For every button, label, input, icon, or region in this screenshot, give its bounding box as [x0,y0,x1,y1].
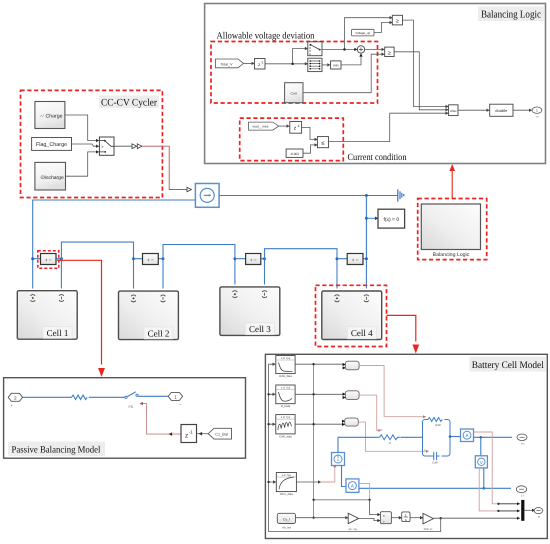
integrator block 1/s [402,512,410,522]
label Passive Balancing Model [8,442,105,457]
switch SW2 [125,392,138,409]
wire AND to double [458,109,487,111]
wire delay to branch node [265,49,306,64]
port oval 2 [8,393,22,408]
svg-text:OCV_data: OCV_data [280,492,294,496]
wire PS V1 to mux input2 [479,468,497,511]
svg-text:1-D T(u): 1-D T(u) [281,357,291,360]
wire sensor1 row stubs [33,258,62,260]
svg-text:Balancing Logic: Balancing Logic [433,252,470,258]
svg-text:CdR: CdR [432,461,438,465]
wire gain1 to divide in2 [359,519,378,521]
gain triangle Ah conversion [348,513,358,531]
node sensor2 right [162,257,165,260]
svg-text:CdR_data: CdR_data [279,434,292,438]
annotation red line panel to subsystem [451,170,453,199]
relational block GE2 [385,47,394,56]
wire PS OCV to Em control [321,467,335,482]
svg-text:Cell 4: Cell 4 [351,328,373,338]
dashed box CC-CV Cycler [21,90,163,197]
wire RC to current sensor A1 [450,436,461,438]
wire mux in1 stub [498,503,519,505]
controlled current source block [195,184,219,208]
svg-text:Cell 2: Cell 2 [148,328,170,338]
svg-text:RdR: RdR [435,423,441,427]
node sensor1 right [60,257,63,260]
resistor R1 [72,395,88,399]
svg-text:Charge: Charge [45,113,62,119]
wire min to sum bottom [341,53,361,65]
node bus junction [365,194,368,197]
converter block G3 [342,418,358,426]
panel Balancing Logic border [205,4,546,164]
current sensor A1 [461,429,474,442]
svg-text:+ −: + − [45,257,52,262]
lookup table R_Data [276,385,295,408]
unit delay z-1 U4 [181,425,197,443]
cell block Cell 4 [322,291,382,340]
wire PS A2 to divide chain [359,483,370,499]
current sensor A2 [346,479,359,493]
wire switch to port1 [138,395,168,397]
panel Passive Balancing Model border [4,378,246,459]
logic block AND [449,105,458,116]
block Discharge [35,162,66,190]
node mux in1 [497,503,499,505]
wire multiport to min [322,64,328,66]
wire GE1 to AND [403,20,447,106]
dashed box cell4 [316,285,387,346]
wire Discharge to switch [66,152,97,176]
wire integrator to gain2 [410,517,421,519]
node V sensor tap [480,436,483,439]
svg-text:Current condition: Current condition [348,153,407,163]
converter block G1 [343,361,359,370]
node mux in2 [497,510,499,512]
port oval minus [516,486,526,498]
wire switch to sum with branch up to GE1 [322,18,390,50]
wire sensor3 stubs [235,258,265,260]
wire GE2 to AND [394,52,446,110]
multiport selector block [308,58,322,71]
cell block Cell 1 [17,291,77,340]
tag Voltage_up [352,29,374,36]
wire divide to integrator [391,517,399,519]
outport oval m [534,508,543,519]
block min [331,61,341,69]
wire cell3 right to cell4 left connector [265,249,338,289]
svg-text:Curr: Curr [291,92,298,96]
node f(x) tap [365,217,368,220]
lookup table CdR_data [276,415,295,439]
svg-text:(+): (+) [521,443,524,446]
svg-text:PS: PS [129,405,134,409]
wire Voltage_up to GE1 second input [374,23,390,33]
wire control z-1 to switch [142,404,182,435]
svg-text:+ −: + − [147,257,154,262]
wire LE to AND [329,113,447,141]
node branch after delay [291,63,294,66]
svg-text:(-): (-) [521,495,524,498]
svg-text:SOC %: SOC % [424,528,433,531]
converter block G2 [343,391,359,400]
label CC-CV Cycler [99,96,159,109]
wire V sensor bottom to minus bus [483,468,485,488]
wire tap to solver block [366,217,375,219]
svg-text:1-D T(u): 1-D T(u) [281,387,291,390]
svg-text:≥: ≥ [396,19,399,25]
svg-text:1: 1 [536,109,538,113]
svg-text:÷: ÷ [383,520,385,524]
wire PS G2 to R0 control [359,395,379,430]
svg-text:min: min [333,64,339,68]
wire tap down to V sensor [480,437,482,456]
wire Em bottom to A2 [342,466,347,487]
wire A2 to port minus bus [359,487,511,489]
switch block SW1 [99,137,114,155]
wire crossing vertical gray [314,364,370,518]
current sensor block S1 [41,254,57,265]
svg-text:R: R [389,441,391,445]
solver block f(x)=0 [378,209,405,228]
annotation red arrow down to battery model [412,345,419,354]
wire cell2 right to cell3 left connector [163,245,235,289]
wire cell1 right to cell2 left connector [61,242,133,288]
svg-text:×: × [383,514,385,518]
wire Flag_Charge to switch [72,144,97,146]
svg-text:R_Data: R_Data [281,404,291,408]
annotation red arrow down to passive model [98,368,105,377]
relational block LE [317,137,328,148]
svg-text:double: double [495,108,508,113]
node sensor1 left [31,257,34,260]
wire resistor to switch [89,396,125,398]
svg-text:1-D T(u): 1-D T(u) [281,416,291,419]
svg-text:m: m [538,516,540,519]
current sensor block S4 [347,254,363,265]
RC parallel block RdR CdR [423,416,451,465]
port oval 1 [168,392,182,407]
wire RdR_data to converter G1 [295,363,342,365]
svg-text:load__mea: load__mea [253,125,269,129]
svg-text:Ah->Ay: Ah->Ay [349,528,358,531]
svg-text:≥: ≥ [388,50,391,56]
annotation red arrow up [449,164,455,171]
annotation red wire cell4 to battery model [387,315,416,341]
wire tap to lookup RdR [269,394,274,482]
mux bar [521,500,524,521]
wire gain2 to mux in3 [433,517,519,519]
node branch to GE1 [343,48,346,51]
svg-text:-1: -1 [189,430,193,435]
current sensor block S2 [143,254,159,265]
current sensor block S3 [246,254,261,265]
wire bus from source right to reference [219,195,398,197]
label Battery Cell Model [470,357,547,372]
svg-text:Flag_Charge: Flag_Charge [36,142,67,148]
block Curr [285,83,303,103]
node sensor2 left [132,257,135,260]
wire mux in2 stub [498,510,519,512]
svg-text:Cell 3: Cell 3 [249,324,271,334]
wire sensor4 stubs [337,258,366,260]
svg-text:-1: -1 [261,60,264,64]
gain triangle SOC percent [423,513,433,531]
node sensor4 right [365,257,368,260]
annotation red wire sensor1 to passive model [57,260,102,364]
svg-text:Cell 1: Cell 1 [47,328,69,338]
svg-text:Voltage_up: Voltage_up [355,31,370,35]
wire PS G3 to CdR control [358,422,426,451]
electrical reference ground [398,189,405,201]
subsystem block Balancing Logic [421,204,480,258]
dashed box Current condition [240,118,344,161]
input port Total_V [216,59,244,68]
wire OCV output [296,481,318,483]
svg-text:CC-CV Cycler: CC-CV Cycler [101,97,158,108]
node sensor4 left [336,257,339,260]
lookup table OCV_data [276,473,296,497]
svg-text:Discharge: Discharge [41,175,64,181]
wire CdR_data to converter G3 [295,423,342,425]
dashed box sensor1 [38,251,59,269]
lookup table RdR_data [276,356,295,379]
panel Battery Cell Model border [265,354,547,538]
wire PS G1 to RdR control [359,366,423,417]
svg-text:Cy_l: Cy_l [283,517,290,521]
svg-text:z: z [185,432,188,439]
wire bus drop to cell4 right [365,196,367,289]
block Flag_Charge [32,138,72,151]
wire mux to outport [524,509,532,511]
wire Charge to switch [65,115,96,141]
voltage sensor V1 [475,456,487,468]
wire Em top to R0 [338,437,380,452]
sum circle U2 [354,46,364,57]
wire constant to LE [303,145,315,153]
svg-text:+ −: + − [250,257,257,262]
cast block double [490,104,513,116]
svg-text:Total_V: Total_V [221,62,234,66]
constant block Cy_l [277,513,295,529]
wire Curr to GE2 second input [303,54,382,92]
wire A1 to port plus [474,436,513,438]
node sensor3 left [233,257,236,260]
svg-text:Ah_init: Ah_init [282,525,291,529]
divide block [380,512,391,524]
wire switch output arrows [114,145,132,147]
node crossings [312,363,314,365]
wire PS A1 to mux input1 [473,432,497,504]
wire Total_V to unit delay [244,62,252,64]
node taps on feedback [267,393,269,395]
wire R_Data to converter G2 [295,393,342,395]
wire load__mea to unit delay2 [279,125,287,127]
svg-text:Battery Cell Model: Battery Cell Model [472,360,544,371]
svg-text:1-D T(u): 1-D T(u) [281,474,291,477]
wire SOC feedback left vertical [269,364,441,531]
svg-text:Balancing Logic: Balancing Logic [481,10,541,21]
wire C1_Bal to z-1 [197,433,209,435]
block Charge [35,102,65,129]
wire sensor2 stubs [134,258,164,260]
wire sum to GE2 [365,48,382,50]
svg-text:RdR_data: RdR_data [279,374,292,378]
node A2 signal junction [368,499,370,501]
cell block Cell 2 [119,291,179,340]
cell block Cell 3 [220,287,280,336]
controlled voltage source Em [332,453,345,466]
wire Cy_l to gain1 [296,517,346,519]
label Balancing Logic title [478,7,544,22]
svg-text:-1: -1 [297,124,300,128]
wire port2 to resistor [23,396,72,398]
svg-text:f(x) = 0: f(x) = 0 [383,217,399,223]
svg-text:Allowable voltage deviation: Allowable voltage deviation [217,32,315,42]
svg-text:V: V [480,460,483,465]
input port load__mea [249,122,279,130]
unit delay z-1 U3 [290,122,302,134]
wire R0 to RC block [401,436,423,438]
node sensor3 right [263,257,266,260]
svg-text:+ −: + − [352,257,359,262]
constant block -0.001 [286,149,303,157]
svg-text:s: s [405,518,407,522]
wire junction down to divide in1 [370,500,378,515]
switch block sort max [308,42,322,56]
svg-text:−: − [179,402,182,407]
relational block GE1 [392,15,402,25]
resistor R0 [380,429,401,445]
dashed box Allowable voltage deviation [211,42,378,104]
outport oval 1 [532,107,542,119]
svg-text:-0.001: -0.001 [290,152,299,156]
svg-text:AND: AND [450,109,457,113]
tag C1_Bal [208,428,231,439]
wire bus from source left to cell1 left [33,200,196,289]
svg-text:m: m [536,116,538,119]
unit delay z-1 U1 [255,59,266,70]
wire CC-CV output to current source (control) [142,146,187,189]
wire double to outport [513,109,530,111]
svg-text:Passive Balancing Model: Passive Balancing Model [12,445,101,455]
dashed box Balancing Logic subsystem [418,199,487,260]
port oval plus [517,434,527,446]
svg-text:C1_Bal: C1_Bal [215,433,228,437]
node feedback junction [440,517,442,519]
wire delay2 to LE [302,127,315,139]
